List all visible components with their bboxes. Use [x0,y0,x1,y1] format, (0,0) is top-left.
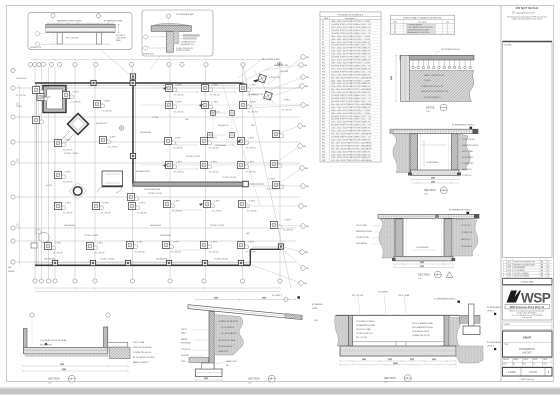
texts above bottom wall [44,259,228,261]
svg-text:F24: F24 [322,89,325,91]
svg-text:750 WIDE STRIP FOOTING 20MPa C: 750 WIDE STRIP FOOTING 20MPa CONC + Y12 [331,137,371,139]
svg-text:50 BLINDING LAYER: 50 BLINDING LAYER [412,330,430,333]
svg-text:SCALE 1:20: SCALE 1:20 [143,53,153,56]
detail cloud left bump [31,229,49,248]
svg-text:06/21: 06/21 [508,264,512,266]
svg-text:F23: F23 [322,86,325,88]
svg-text:1x P/F4 (TYP): 1x P/F4 (TYP) [269,77,281,79]
SECTION 3 right soil [458,134,470,170]
box1 column stub left [57,33,62,44]
titleblock DO NOT SCALE [507,6,547,20]
SECTION 1 toe extension [108,342,130,358]
svg-text:www.wsp.com: www.wsp.com [522,317,533,319]
svg-text:GB2 300x900: GB2 300x900 [150,225,161,227]
svg-text:NOTES: NOTES [505,45,513,47]
pad footing F3 [61,90,73,99]
svg-text:600 WIDE STRIP FOOTING 20MPa C: 600 WIDE STRIP FOOTING 20MPa CONC + Y10 [331,98,371,100]
SECTION 5 left annotations [181,329,191,363]
SECTION 4 dims [339,359,457,366]
svg-text:F22: F22 [322,83,325,85]
SECTION 4 right toe hatch [456,346,483,363]
svg-text:T/C +99.750: T/C +99.750 [246,148,256,150]
titleblock number bar [503,368,553,377]
svg-text:Mark: Mark [324,17,328,20]
svg-text:F41: F41 [322,139,325,141]
titleblock notes box [503,42,553,258]
svg-text:F46: F46 [322,154,325,156]
svg-text:1x P/F4: 1x P/F4 [211,162,217,164]
svg-text:F36: F36 [322,125,325,127]
extra top bubble right [277,62,281,66]
pad footing F19 [200,100,212,109]
svg-text:600 WIDE STRIP FOOTING 20MPa C: 600 WIDE STRIP FOOTING 20MPa CONC + Y10 [331,65,371,67]
svg-text:3200: 3200 [214,298,218,300]
svg-text:T/C +99.750: T/C +99.750 [95,253,105,255]
svg-text:COMPACTED G5 FILL IN: COMPACTED G5 FILL IN [421,85,443,88]
SECTION 1 bottom slab [23,347,107,353]
box1 slab hatched band [46,24,116,32]
pad footing F16 [200,83,212,92]
svg-text:T/CONC +99.450: T/CONC +99.450 [84,235,98,237]
pad footing F6 [98,135,110,144]
SECTION 3 dims below [410,178,460,185]
svg-text:Tel: +27 31 240 8800 Fax: +27: Tel: +27 31 240 8800 Fax: +27 31 240 886… [512,315,543,317]
svg-text:T/C +99.750: T/C +99.750 [282,110,292,112]
svg-text:WATERPROOFING: WATERPROOFING [356,230,372,233]
svg-text:CONSULTANT: CONSULTANT [520,281,534,284]
svg-text:WSP: WSP [521,291,551,306]
svg-text:F17: F17 [322,68,325,70]
svg-text:2100 x 2100 x 500 DP PAD FOOTI: 2100 x 2100 x 500 DP PAD FOOTING 30MPa R… [331,138,371,141]
svg-text:F2: F2 [322,24,324,26]
svg-text:1x P/F5: 1x P/F5 [212,102,218,104]
svg-text:4100: 4100 [420,266,424,268]
svg-text:T/C +99.750: T/C +99.750 [171,252,181,254]
svg-text:900 x 900 x 350 DP PAD FOOTING: 900 x 900 x 350 DP PAD FOOTING + A393 ME… [331,144,372,147]
left vertical dimension line [18,85,20,265]
svg-text:1800 x 1800 x 450 DP PAD FOOTI: 1800 x 1800 x 450 DP PAD FOOTING + Y12 E… [331,38,370,41]
svg-text:250 RC SLAB: 250 RC SLAB [398,294,410,297]
svg-text:1x P/F5: 1x P/F5 [137,242,143,244]
svg-text:1x P/F3: 1x P/F3 [212,85,218,87]
plan horizontal grid lines [16,88,300,262]
svg-text:900 x 900 x 350 DP PAD FOOTING: 900 x 900 x 350 DP PAD FOOTING + A393 ME… [331,76,372,79]
box2 slab hatched band [151,26,191,32]
svg-text:JG: JG [533,364,535,366]
svg-text:F6: F6 [322,36,324,38]
svg-text:1200 x 1200 x 350 DP PAD FOOTI: 1200 x 1200 x 350 DP PAD FOOTING 30MPa R… [331,150,371,153]
svg-text:1:20: 1:20 [426,111,430,113]
lift pit top-left [43,86,66,113]
svg-text:Y12 AT 200 EW: Y12 AT 200 EW [356,236,369,239]
svg-text:1x P/F2: 1x P/F2 [65,172,71,174]
SECTION 1 grid bubble left [30,313,34,360]
svg-text:FILL: FILL [226,365,230,367]
svg-text:T/C +99.750: T/C +99.750 [246,172,256,174]
skew pad S1 marker [253,77,280,83]
svg-text:GB2: GB2 [8,267,11,269]
svg-text:1x P/F4: 1x P/F4 [248,242,254,244]
right edge leader circles [298,55,310,286]
svg-text:T/C +99.750: T/C +99.750 [63,182,73,184]
svg-text:CLIENT: CLIENT [504,324,510,326]
wall pad W2 [90,260,95,265]
svg-text:1900: 1900 [431,181,435,183]
SECTION 5 soil behind wall [214,315,243,356]
svg-text:GB1: GB1 [306,226,309,228]
svg-text:1x P/F5: 1x P/F5 [173,242,179,244]
svg-text:1x P/F5: 1x P/F5 [214,201,220,203]
SECTION 3 right annotations [462,138,478,177]
pad footing F9 [53,201,65,210]
svg-text:1:1000: 1:1000 [508,370,516,374]
SECTION 5 sloped slab [188,305,302,320]
ground beam top wall [35,82,247,85]
SECTION 1 under-slab strip [25,354,108,357]
svg-text:T/C +99.750: T/C +99.750 [210,95,220,97]
pad footing F1 [31,85,43,94]
svg-text:T/C +99.750: T/C +99.750 [53,253,63,255]
SECTION 4 right column and base [460,304,481,335]
svg-text:F4: F4 [322,30,324,32]
top grid bubbles row [28,62,245,66]
svg-text:4: 4 [503,273,504,275]
svg-text:250 RC RETAINING WALL: 250 RC RETAINING WALL [412,322,434,325]
svg-text:F18: F18 [322,71,325,73]
box2 grid bubble [167,14,171,52]
pad footing F17 [238,83,250,92]
svg-text:F27: F27 [322,98,325,100]
svg-text:50 BLINDING: 50 BLINDING [461,246,473,248]
door swing arcs [98,187,122,193]
svg-text:1800 x 1800 x 450 DP PAD FOOTI: 1800 x 1800 x 450 DP PAD FOOTING + Y12 E… [331,20,370,23]
svg-text:600 WIDE STRIP FOOTING 20MPa C: 600 WIDE STRIP FOOTING 20MPa CONC + Y10 [331,116,371,118]
svg-text:1x P/F2: 1x P/F2 [211,138,217,140]
pad footing F15 [164,83,176,92]
svg-text:GB1 300x600: GB1 300x600 [140,132,151,134]
svg-text:GB2 300x900: GB2 300x900 [44,259,55,261]
bottom wall step up [250,247,281,265]
svg-text:1800 x 1800 x 450 DP PAD FOOTI: 1800 x 1800 x 450 DP PAD FOOTING + Y12 E… [331,109,370,112]
ground beam left edge [36,83,38,265]
SECTION 5 footing dims [195,378,224,381]
svg-text:CHECK: CHECK [523,359,528,361]
svg-text:IN 150 LAYERS: IN 150 LAYERS [221,326,235,329]
svg-text:2200: 2200 [410,359,414,361]
svg-text:2100 x 2100 x 500 DP PAD FOOTI: 2100 x 2100 x 500 DP PAD FOOTING 30MPa R… [331,67,371,70]
box2 wall stem [166,31,173,52]
svg-text:GB2 300x900: GB2 300x900 [160,235,171,237]
internal beam band horizontal [133,181,264,187]
svg-text:750 WIDE STRIP FOOTING 20MPa C: 750 WIDE STRIP FOOTING 20MPa CONC + Y12 [331,57,371,59]
SECTION 2 right annotations [461,224,473,248]
pad footing F5 [53,138,65,147]
svg-text:LEVEL X: LEVEL X [487,346,495,348]
SECTION 4 right wall [444,315,449,346]
svg-text:2100 x 2100 x 500 DP PAD FOOTI: 2100 x 2100 x 500 DP PAD FOOTING 30MPa R… [331,106,371,109]
svg-text:F15: F15 [322,63,325,65]
svg-text:F1: F1 [322,21,324,23]
svg-text:75 SCREED: 75 SCREED [378,292,389,294]
svg-text:MASS CONCRETE FILL: MASS CONCRETE FILL [424,74,445,77]
svg-text:2500: 2500 [431,178,435,180]
box1 base line [50,43,110,45]
svg-text:100 DIA SUBSOIL: 100 DIA SUBSOIL [218,345,233,348]
SECTION 4 title [384,375,411,384]
svg-text:DPM: DPM [181,361,185,363]
svg-text:T/CONC +99.750: T/CONC +99.750 [148,193,162,195]
skew pad footing S1 [258,74,267,83]
svg-text:GB2: GB2 [305,168,308,170]
pad footing F10 [91,201,103,210]
svg-text:750 WIDE STRIP FOOTING 20MPa C: 750 WIDE STRIP FOOTING 20MPa CONC + Y12 [331,33,371,35]
svg-text:SECTION: SECTION [248,377,260,381]
svg-text:2100 x 2100 x 500 DP PAD FOOTI: 2100 x 2100 x 500 DP PAD FOOTING 30MPa R… [331,26,371,29]
WSP logo block [503,286,553,321]
svg-text:750 WIDE STRIP FOOTING 20MPa C: 750 WIDE STRIP FOOTING 20MPa CONC + Y12 [331,30,371,32]
pad footing F32 [199,240,211,249]
box1 rebar marks [47,22,114,24]
svg-text:F44: F44 [322,148,325,150]
svg-text:T/C +99.750: T/C +99.750 [63,150,73,152]
svg-text:RL REFERENCE LEVEL X: RL REFERENCE LEVEL X [449,210,472,212]
svg-text:T/C +99.750: T/C +99.750 [248,112,258,114]
svg-text:T/C +99.750: T/C +99.750 [173,148,183,150]
svg-text:T/CONC +99.750: T/CONC +99.750 [222,177,236,179]
svg-text:GB2: GB2 [303,126,306,128]
svg-text:1x P/F2: 1x P/F2 [16,106,22,108]
titleblock consultant band [503,279,553,285]
svg-text:Y12 AT 200: Y12 AT 200 [461,224,470,227]
pad-to-pad dim segments [172,91,237,250]
svg-text:250 SURFACE BED: 250 SURFACE BED [262,58,281,61]
SECTION 5 leader texts bottom [216,360,238,367]
svg-text:7600: 7600 [60,364,64,366]
svg-text:1x P/F3: 1x P/F3 [139,203,145,205]
svg-text:1x P/F5: 1x P/F5 [176,85,182,87]
svg-text:1x P/F4: 1x P/F4 [104,101,110,103]
svg-text:15 MPa: 15 MPa [424,80,431,82]
svg-text:T/C +99.750: T/C +99.750 [248,95,258,97]
SECTION 2 ref level note [449,210,472,215]
svg-text:1200 x 1200 x 350 DP PAD FOOTI: 1200 x 1200 x 350 DP PAD FOOTING 30MPa R… [331,53,371,56]
svg-text:T/C +99.750: T/C +99.750 [212,211,222,213]
svg-text:TITLE: TITLE [504,344,508,346]
svg-text:2100 x 2100 x 500 DP PAD FOOTI: 2100 x 2100 x 500 DP PAD FOOTING 30MPa R… [331,121,371,124]
svg-text:GB1: GB1 [306,57,309,59]
box2 label blocks [179,34,200,39]
svg-text:© WSP Group plc: © WSP Group plc [520,378,535,381]
diagonal grid line [243,66,291,288]
svg-text:GB1: GB1 [306,268,309,270]
titleblock copyright [520,378,535,381]
svg-text:750 WIDE STRIP FOOTING 20MPa C: 750 WIDE STRIP FOOTING 20MPa CONC + Y12 [331,24,371,26]
svg-text:RL REFERENCE: RL REFERENCE [487,342,502,344]
svg-text:T/C +99.750: T/C +99.750 [209,252,219,254]
escalator ramp band [59,131,75,147]
SECTION 1 left wall [23,329,27,353]
svg-text:F29: F29 [322,104,325,106]
svg-text:T/C +99.750: T/C +99.750 [16,95,25,97]
svg-text:50 BLINDING: 50 BLINDING [356,243,368,245]
svg-text:1200 x 1200 x 350 DP PAD FOOTI: 1200 x 1200 x 350 DP PAD FOOTING 30MPa R… [331,85,371,88]
svg-text:07/21: 07/21 [508,267,512,269]
SECTION 2 pit interior [407,219,442,256]
svg-text:ON WATERPROOFING: ON WATERPROOFING [356,324,376,327]
svg-text:Y12 AT 200: Y12 AT 200 [462,174,471,177]
svg-text:GB2: GB2 [304,65,307,67]
svg-text:T/C +99.750: T/C +99.750 [102,111,112,113]
svg-text:T/C +99.750: T/C +99.750 [135,252,145,254]
svg-text:EARTH FILL: EARTH FILL [462,168,472,171]
DETAIL wall strip [401,55,410,101]
svg-text:WATER: WATER [181,338,188,341]
svg-text:GB1 300x600 DEEP: GB1 300x600 DEEP [144,189,161,191]
pad footing F25 [164,160,176,169]
SECTION 4 leader notes above [352,292,460,303]
skew grid segment [254,70,274,104]
svg-text:1x P/F2: 1x P/F2 [110,137,116,139]
column pad on wall A [91,80,96,85]
svg-text:95% MOD AASHTO: 95% MOD AASHTO [424,96,441,99]
svg-text:1:20: 1:20 [424,194,428,196]
svg-text:F10: F10 [322,48,325,50]
svg-text:1x P/F5: 1x P/F5 [65,140,71,142]
svg-text:NGL: NGL [314,320,318,322]
svg-text:GB1: GB1 [185,119,189,121]
svg-text:RL LEVEL X: RL LEVEL X [272,295,283,297]
svg-text:75 SCREED ON 255 RC SLAB: 75 SCREED ON 255 RC SLAB [40,339,67,342]
svg-text:1200 x 1200 x 350 DP PAD FOOTI: 1200 x 1200 x 350 DP PAD FOOTING 30MPa R… [331,153,371,156]
column pad on wall B [130,80,135,85]
svg-text:50 BLIND: 50 BLIND [181,355,189,357]
svg-text:T/C +99.750: T/C +99.750 [209,172,219,174]
svg-text:F30: F30 [322,107,325,109]
svg-text:1200 x 1200 x 350 DP PAD FOOTI: 1200 x 1200 x 350 DP PAD FOOTING 30MPa R… [331,127,371,130]
svg-text:05/21: 05/21 [508,262,512,264]
pad footing F24 [236,136,248,145]
arrow markers [163,87,241,206]
box1 level bubble 2 [35,42,50,46]
svg-text:T/CONC +99.450: T/CONC +99.450 [210,225,224,227]
pad footing F2 [31,115,43,124]
small pad footing P4 [230,133,235,138]
svg-text:90% MOD AASHTO: 90% MOD AASHTO [221,332,238,335]
svg-text:GB2: GB2 [246,233,250,235]
SECTION 1 right wall [104,327,108,352]
svg-text:DPM ON 50 BLINDING: DPM ON 50 BLINDING [133,347,152,349]
DETAIL leader texts right [430,48,459,58]
svg-text:F19: F19 [322,74,325,76]
svg-text:AASHTO DENSITY: AASHTO DENSITY [133,361,149,364]
svg-text:900 x 900 x 350 DP PAD FOOTING: 900 x 900 x 350 DP PAD FOOTING + A393 ME… [331,141,372,144]
SECTION 2 left annotations [356,224,372,245]
svg-text:10/21: 10/21 [508,276,512,278]
svg-text:F11: F11 [322,51,325,53]
pad footing F26 [199,160,211,169]
svg-text:SSL +XX XXX: SSL +XX XXX [356,337,368,339]
svg-text:1x P/F2: 1x P/F2 [285,220,291,222]
svg-text:1800 x 1800 x 450 DP PAD FOOTI: 1800 x 1800 x 450 DP PAD FOOTING + Y12 E… [331,62,370,65]
pad footing F35 [269,220,281,229]
leader lines to plan [244,57,303,283]
skew pad S2 label [249,94,263,96]
svg-text:1800 x 1800 x 450 DP PAD FOOTI: 1800 x 1800 x 450 DP PAD FOOTING + Y12 E… [331,79,370,82]
pad footing F23 [199,136,211,145]
svg-text:GB2: GB2 [305,252,308,254]
svg-text:0: 0 [503,262,504,264]
svg-text:F40: F40 [322,137,325,139]
svg-text:1:20: 1:20 [248,382,251,384]
top dimension line [31,58,265,61]
box1 column stub right [96,33,101,44]
svg-text:1x P/F3: 1x P/F3 [176,102,182,104]
svg-text:F5: F5 [322,33,324,35]
svg-text:2800: 2800 [362,359,366,361]
svg-text:WATERPROOFING: WATERPROOFING [462,144,478,147]
SECTION 4 left earth block [335,315,349,346]
svg-text:1800 x 1800 x 450 DP PAD FOOTI: 1800 x 1800 x 450 DP PAD FOOTING + Y12 E… [331,112,370,115]
svg-text:2500x900x600 DP FOOTING: 2500x900x600 DP FOOTING [407,32,430,34]
svg-text:1x P/F3: 1x P/F3 [175,138,181,140]
plan annotation texts [41,85,293,255]
svg-text:F33: F33 [322,116,325,118]
pad row link lines [140,88,300,165]
svg-text:B1 PARKING LEVEL: B1 PARKING LEVEL [104,19,124,22]
box2 level bubble 2 [144,46,167,50]
svg-text:F42: F42 [322,142,325,144]
svg-text:F28: F28 [322,101,325,103]
svg-text:GEOTEXTILE DRAIN: GEOTEXTILE DRAIN [218,339,236,342]
svg-text:250 RC WALL: 250 RC WALL [356,224,367,227]
column pad on mid wall [130,153,135,158]
svg-text:09/21: 09/21 [508,273,512,275]
svg-text:2100 x 2100 x 500 DP PAD FOOTI: 2100 x 2100 x 500 DP PAD FOOTING 30MPa R… [331,156,371,159]
svg-text:8200: 8200 [62,369,66,371]
svg-text:SECTION: SECTION [384,376,396,380]
svg-text:COMPACTED G5 FILL: COMPACTED G5 FILL [412,334,430,337]
svg-text:F39: F39 [322,134,325,136]
svg-text:AT 150 LAYERS 93% MOD: AT 150 LAYERS 93% MOD [133,356,156,359]
SECTION 1 interior text [40,339,67,347]
pad footing F12 [43,241,55,250]
svg-text:T/CONC +99.750: T/CONC +99.750 [186,156,200,158]
SECTION 3 bottom slab [408,170,461,176]
SECTION 3 right pit wall [452,134,459,170]
svg-text:GB1: GB1 [306,105,309,107]
SECTION 5 retaining wall [209,312,214,369]
svg-text:MASS CONC: MASS CONC [226,360,238,363]
svg-text:LAYERS AT 150: LAYERS AT 150 [181,43,194,46]
svg-text:T/CONC +99.450: T/CONC +99.450 [214,259,228,261]
svg-text:1500 x 1500 x 400 DP PAD FOOTI: 1500 x 1500 x 400 DP PAD FOOTING 30MPa R… [331,82,371,85]
svg-text:F34: F34 [322,119,325,121]
svg-text:F37: F37 [322,128,325,130]
svg-text:3: 3 [503,270,504,272]
svg-text:2800: 2800 [262,298,266,300]
svg-text:F25: F25 [322,92,325,94]
column pad at step end [278,244,283,249]
svg-text:1200 x 1200 x 350 DP PAD FOOTI: 1200 x 1200 x 350 DP PAD FOOTING 30MPa R… [331,73,371,76]
skew pad footing S2 [264,91,273,100]
SECTION 2 right pit wall [444,219,452,256]
svg-text:XX-XX: XX-XX [529,370,537,374]
svg-text:1800 x 1800 x 450 DP PAD FOOTI: 1800 x 1800 x 450 DP PAD FOOTING + Y12 E… [331,35,370,38]
svg-text:10400: 10400 [393,363,398,365]
SECTION 4 right earth block [449,318,460,347]
svg-text:F38: F38 [322,131,325,133]
svg-text:250 SURFACE BED: 250 SURFACE BED [176,13,195,16]
